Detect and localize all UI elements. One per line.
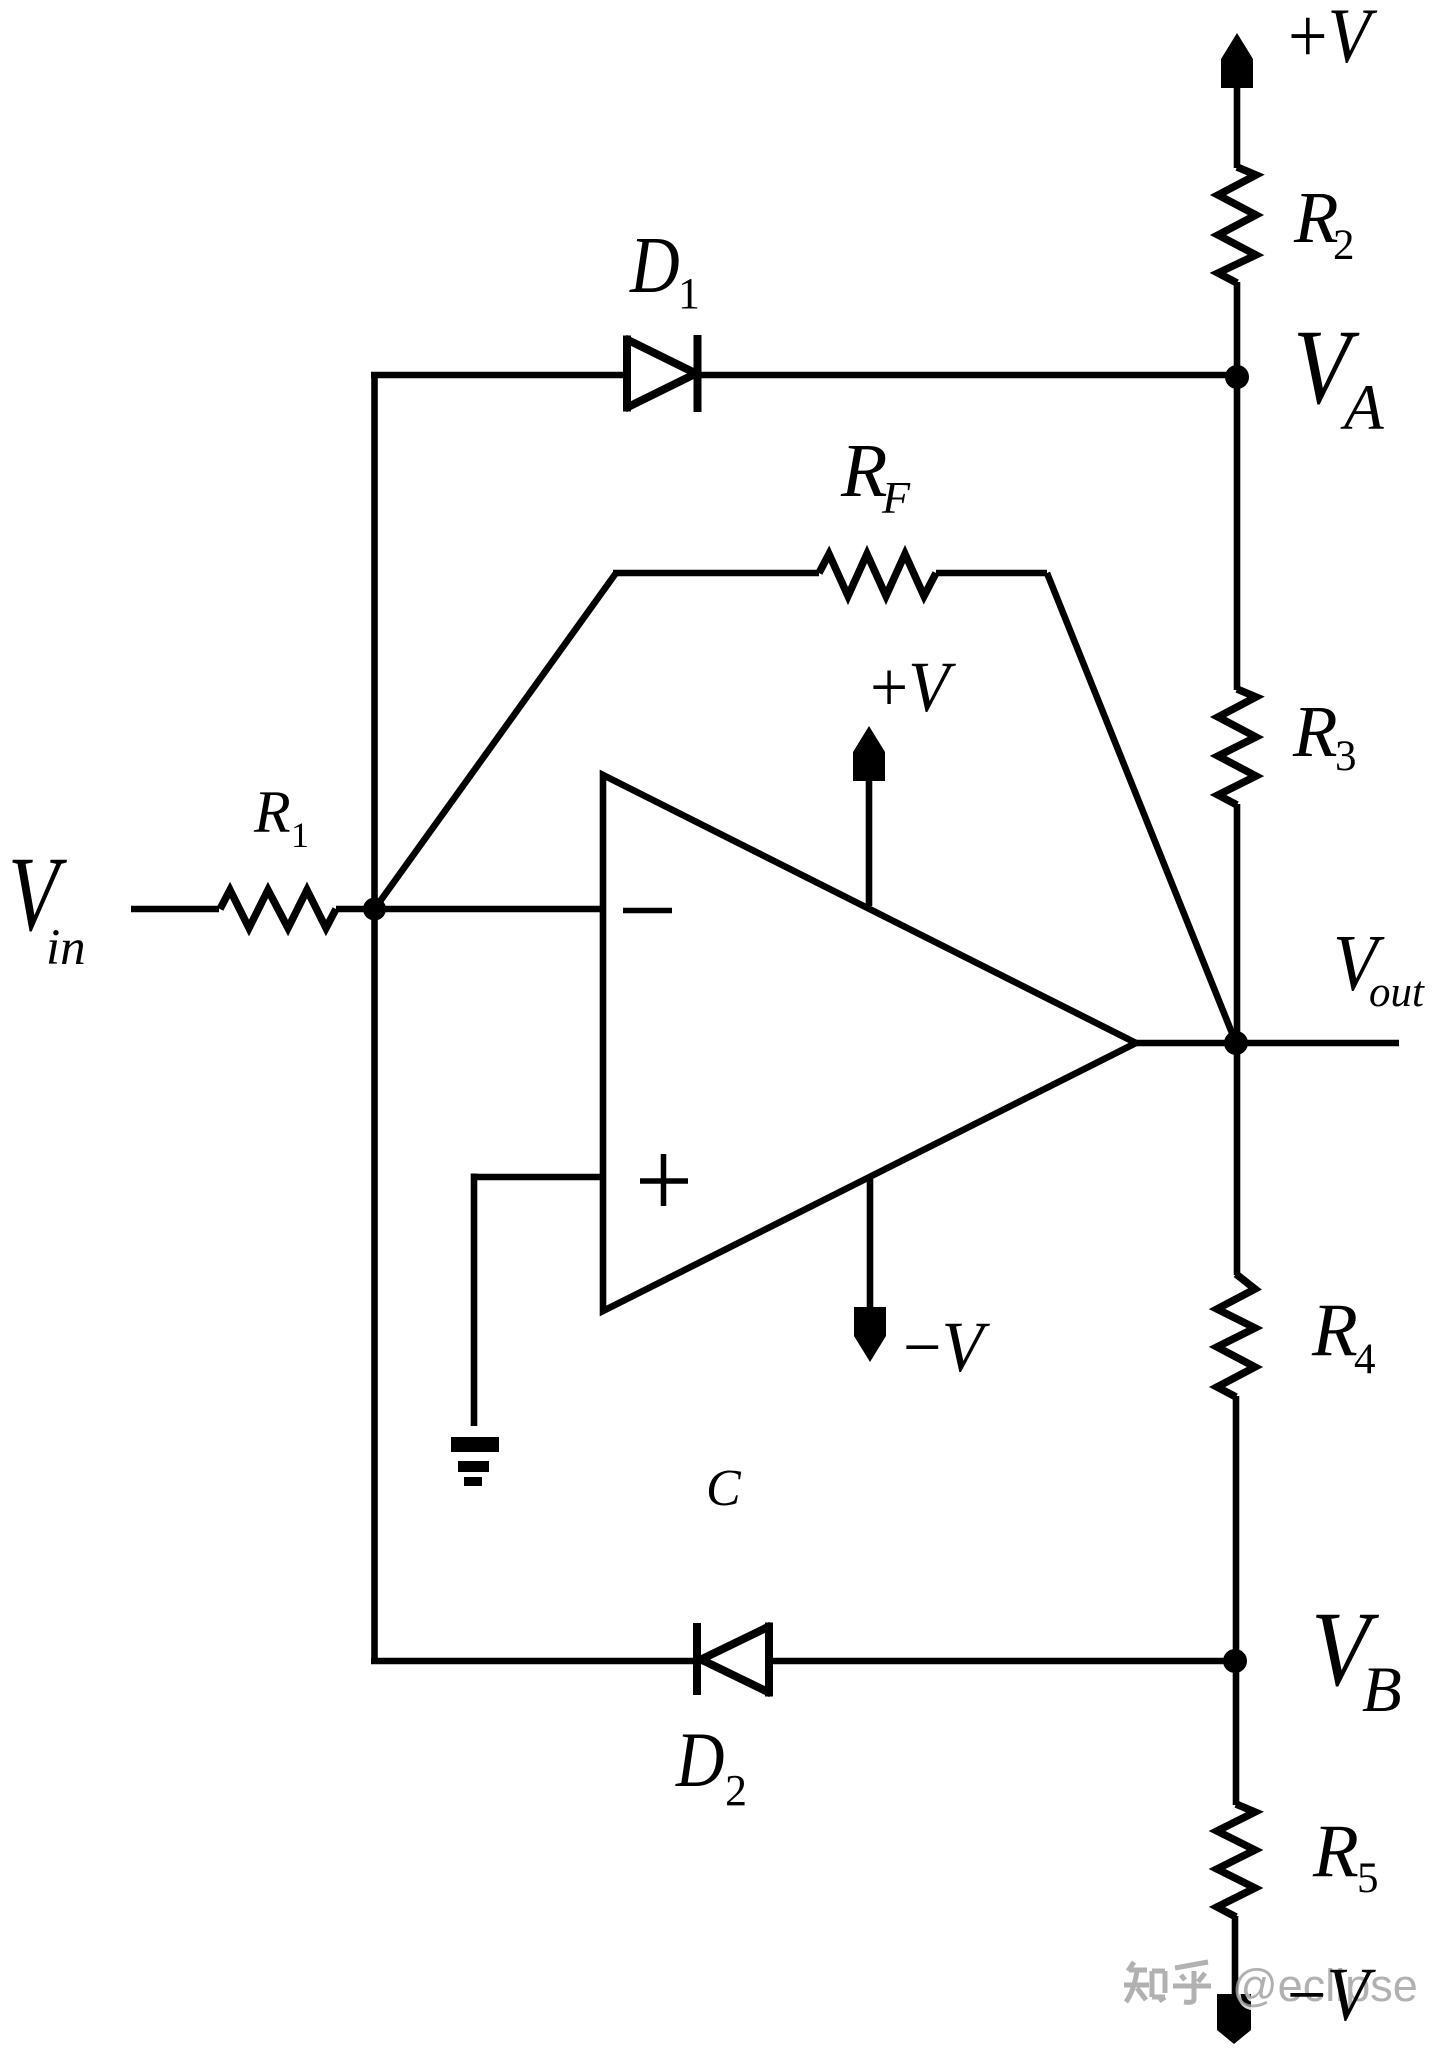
svg-text:−V: −V (903, 1307, 990, 1387)
wire: noninverting to ground stem (471, 1174, 478, 1427)
wire: Vin input to R1 (131, 906, 219, 913)
node: input junction (363, 898, 386, 921)
svg-text:2: 2 (725, 1766, 747, 1815)
wire: R1 to inverting input (336, 906, 603, 913)
svg-text:4: 4 (1354, 1336, 1376, 1383)
diode D2 triangle (703, 1626, 769, 1693)
svg-text:D: D (629, 222, 680, 310)
watermark 知乎 white shadow (1126, 1965, 1213, 2005)
power arrow -V (op-amp) (854, 1307, 886, 1362)
node Vout (1224, 1031, 1248, 1055)
wire: R2 to node VA (1234, 282, 1241, 690)
resistor R1 (220, 890, 336, 928)
svg-text:A: A (1340, 372, 1384, 444)
power arrow -V (bottom right) (1217, 1994, 1251, 2044)
wire: R3 to node Vout (1234, 804, 1241, 1275)
svg-text:R: R (253, 779, 291, 845)
wire: VB to R5 (1233, 1661, 1240, 1805)
ground symbol bar 1 (451, 1437, 499, 1452)
watermark 乎 strokes (1173, 1962, 1211, 2002)
wire: RF right diagonal to Vout node (1047, 573, 1236, 1043)
svg-text:F: F (881, 472, 911, 523)
svg-text:2: 2 (1333, 222, 1355, 269)
svg-text:R: R (1292, 691, 1338, 772)
resistor R2 (1218, 167, 1256, 283)
wire: +V stem above op-amp (866, 779, 873, 906)
svg-text:+V: +V (870, 648, 957, 727)
op-amp minus symbol (623, 908, 672, 914)
svg-text:D: D (675, 1716, 724, 1803)
power arrow +V (top right) (1221, 33, 1253, 88)
svg-text:R: R (840, 429, 887, 513)
svg-text:R: R (1311, 1289, 1358, 1372)
wire: noninverting input horizontal (474, 1174, 603, 1181)
svg-text:R: R (1293, 177, 1339, 258)
wire: top horizontal (D1 branch) (371, 372, 1236, 379)
resistor R3 (1218, 689, 1256, 805)
op-amp U1 triangle (603, 775, 1136, 1311)
svg-text:+V: +V (1288, 0, 1378, 80)
wire: bottom horizontal (D2 branch) (371, 1658, 1236, 1665)
diode D1 cathode bar (694, 335, 702, 412)
wire: RF left diagonal from input node (375, 573, 617, 909)
wire: left vertical rail (371, 375, 378, 1661)
ground symbol bar 2 (458, 1461, 489, 1472)
diode D1 triangle (627, 339, 694, 408)
diode D2 cathode bar (693, 1623, 701, 1695)
svg-text:−V: −V (1287, 1952, 1376, 2036)
node VA (1225, 365, 1249, 389)
svg-text:1: 1 (291, 815, 309, 855)
watermark 知 strokes (1124, 1962, 1165, 2002)
wire: R5 to -V arrow (1232, 1916, 1239, 1996)
svg-text:in: in (46, 920, 86, 976)
power arrow +V (op-amp) (853, 726, 885, 781)
svg-text:5: 5 (1357, 1855, 1379, 1902)
wire: op-amp output (1136, 1040, 1399, 1047)
ground symbol bar 3 (464, 1477, 482, 1486)
node VB (1223, 1649, 1247, 1673)
svg-text:B: B (1362, 1654, 1402, 1726)
svg-text:R: R (1312, 1810, 1359, 1893)
resistor R4 (1217, 1274, 1255, 1397)
wire: RF left horizontal (613, 570, 819, 577)
wire: +V supply stem to top rail (1234, 84, 1241, 168)
resistor R5 (1217, 1804, 1255, 1917)
wire: R4 to node VB (1233, 1396, 1240, 1661)
svg-text:1: 1 (678, 269, 700, 318)
svg-text:3: 3 (1335, 733, 1357, 780)
wire: RF right horizontal (936, 570, 1047, 577)
svg-text:C: C (706, 1460, 742, 1517)
op-amp plus symbol (640, 1154, 688, 1206)
wire: -V stem below op-amp (867, 1179, 874, 1309)
svg-text:out: out (1369, 969, 1425, 1016)
resistor RF (819, 554, 936, 596)
